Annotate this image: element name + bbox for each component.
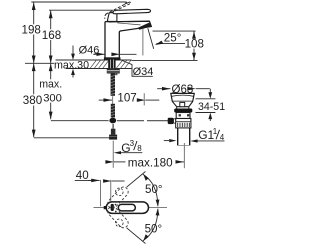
threaded stud upper (111, 74, 115, 96)
tick max.300 bottom (51, 120, 109, 122)
reference line 168 level (49, 9, 113, 11)
drain nut (176, 119, 191, 128)
pull rod ball joint (109, 118, 116, 124)
extension line from spout tip (25deg/107) (142, 28, 144, 55)
spout top inner edge line (117, 23, 140, 25)
handle pivot block (108, 12, 117, 21)
bottom view centerline right (149, 207, 167, 209)
tick 380 bottom (34, 137, 110, 139)
spout underside aerator wedge (138, 23, 152, 30)
svg-text:3: 3 (130, 139, 135, 148)
drain seal band (174, 109, 192, 113)
handle raised position (dashed) (105, 2, 131, 19)
dimension 380 (33, 63, 35, 137)
threaded stud lower (111, 104, 115, 118)
drain flange (171, 93, 195, 101)
dimension max.300 (50, 63, 52, 119)
svg-text:198: 198 (22, 23, 41, 36)
dimension 34-51 (209, 89, 211, 93)
horizontal pop-up rod (117, 120, 144, 122)
dimension 108 (153, 30, 196, 32)
pull rod hole (111, 204, 114, 211)
extension line drain center (183, 143, 185, 168)
drain plug knob (180, 102, 185, 106)
bottom view centerline left (94, 207, 104, 209)
max.30 arrows (72, 46, 74, 56)
svg-text:380: 380 (23, 94, 42, 107)
handle swing lower (dashed) (106, 205, 130, 230)
drain neck (172, 102, 192, 107)
rod knob at drain (168, 118, 174, 124)
hose fitting nut (109, 135, 117, 140)
svg-text:25°: 25° (164, 32, 182, 45)
cartridge slot (118, 204, 135, 211)
dimension 168 (50, 11, 52, 64)
svg-text:1: 1 (213, 127, 218, 136)
dimension 198 (33, 2, 35, 63)
extension line below stud (112, 141, 114, 168)
reference line top (height 198 level) (31, 2, 126, 4)
handle swing upper (dashed) (106, 185, 130, 210)
countertop reference line left (25, 62, 54, 64)
svg-text:max.180: max.180 (128, 157, 173, 170)
pull rod lower stem (112, 124, 114, 129)
svg-text:168: 168 (42, 29, 61, 42)
hose fitting upper (111, 129, 116, 135)
svg-text:300: 300 (43, 92, 62, 104)
faucet base plate (104, 57, 121, 60)
svg-text:108: 108 (185, 38, 204, 51)
drain tailpipe (178, 128, 190, 145)
shank through countertop (108, 59, 115, 69)
svg-text:107: 107 (117, 92, 136, 105)
faucet body outline (105, 21, 151, 60)
break line at 107 dimension (112, 96, 114, 104)
svg-text:Ø63: Ø63 (172, 84, 194, 96)
drain body upper (176, 113, 190, 119)
rod stub left (104, 206, 107, 209)
svg-text:max.: max. (39, 78, 62, 90)
countertop band (56, 60, 132, 69)
countertop hatching (90, 60, 131, 68)
svg-text:34-51: 34-51 (198, 101, 225, 113)
svg-text:max.30: max.30 (54, 59, 89, 71)
screw dimples (115, 204, 117, 206)
handle lever blade (113, 9, 150, 14)
mounting nut (107, 69, 120, 74)
countertop reference line right (132, 59, 198, 61)
svg-text:8: 8 (137, 144, 142, 153)
base stadium outline (bottom view) (106, 202, 148, 214)
G1 1/4 arrows at pipe (164, 140, 169, 142)
svg-text:50°: 50° (145, 183, 163, 196)
